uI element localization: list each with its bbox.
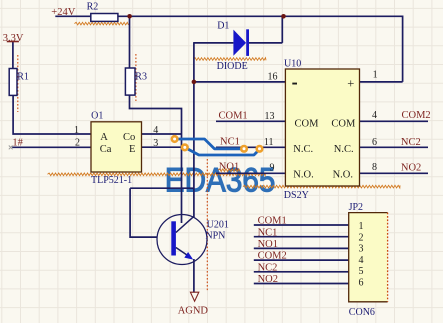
svg-text:NO2: NO2 bbox=[258, 274, 278, 285]
svg-text:4: 4 bbox=[153, 125, 158, 136]
svg-text:NC1: NC1 bbox=[220, 137, 240, 148]
svg-text:16: 16 bbox=[268, 71, 278, 82]
svg-text:TLP521-1: TLP521-1 bbox=[91, 175, 132, 186]
svg-text:O1: O1 bbox=[91, 110, 103, 121]
svg-text:A: A bbox=[100, 132, 108, 143]
svg-text:AGND: AGND bbox=[178, 306, 209, 317]
svg-text:1: 1 bbox=[359, 221, 364, 232]
svg-text:NO1: NO1 bbox=[219, 162, 239, 173]
svg-text:COM: COM bbox=[295, 119, 320, 130]
svg-text:N.C.: N.C. bbox=[293, 144, 313, 155]
svg-text:3: 3 bbox=[153, 138, 158, 149]
svg-text:1: 1 bbox=[373, 70, 378, 81]
svg-text:3: 3 bbox=[359, 244, 364, 255]
svg-text:R2: R2 bbox=[87, 1, 99, 12]
svg-text:4: 4 bbox=[372, 110, 377, 121]
svg-text:6: 6 bbox=[372, 137, 377, 148]
svg-text:R1: R1 bbox=[17, 72, 29, 83]
svg-text:U10: U10 bbox=[284, 58, 301, 69]
svg-text:E: E bbox=[129, 144, 135, 155]
svg-text:+24V: +24V bbox=[51, 7, 75, 18]
svg-text:4: 4 bbox=[359, 255, 364, 266]
svg-text:2: 2 bbox=[359, 232, 364, 243]
svg-text:9: 9 bbox=[270, 162, 275, 173]
svg-text:NO1: NO1 bbox=[258, 239, 278, 250]
svg-text:COM2: COM2 bbox=[402, 110, 431, 121]
svg-text:NPN: NPN bbox=[205, 230, 225, 241]
svg-text:CON6: CON6 bbox=[349, 307, 375, 318]
svg-text:11: 11 bbox=[264, 137, 274, 148]
svg-text:Ca: Ca bbox=[100, 144, 112, 155]
svg-text:8: 8 bbox=[372, 162, 377, 173]
svg-text:NC2: NC2 bbox=[401, 137, 421, 148]
svg-text:NO2: NO2 bbox=[401, 162, 421, 173]
svg-text:COM2: COM2 bbox=[258, 251, 287, 262]
svg-text:DS2Y: DS2Y bbox=[284, 190, 309, 201]
svg-text:U201: U201 bbox=[207, 220, 229, 231]
svg-text:NC1: NC1 bbox=[258, 227, 278, 238]
svg-text:6: 6 bbox=[359, 278, 364, 289]
svg-text:Co: Co bbox=[123, 132, 135, 143]
svg-text:NC2: NC2 bbox=[258, 262, 278, 273]
svg-text:COM1: COM1 bbox=[258, 216, 287, 227]
svg-text:N.O.: N.O. bbox=[293, 170, 313, 181]
svg-text:N.O.: N.O. bbox=[333, 170, 353, 181]
svg-text:3.3V: 3.3V bbox=[3, 33, 24, 44]
svg-text:JP2: JP2 bbox=[349, 202, 363, 213]
svg-text:5: 5 bbox=[359, 266, 364, 277]
svg-text:13: 13 bbox=[265, 111, 275, 122]
svg-text:COM: COM bbox=[331, 119, 356, 130]
svg-text:R3: R3 bbox=[135, 71, 147, 82]
svg-text:DIODE: DIODE bbox=[217, 61, 248, 72]
svg-text:1: 1 bbox=[74, 125, 79, 136]
svg-text:COM1: COM1 bbox=[219, 111, 248, 122]
svg-text:+: + bbox=[347, 77, 354, 91]
svg-text:D1: D1 bbox=[217, 21, 229, 32]
svg-text:2: 2 bbox=[75, 138, 80, 149]
svg-text:1#: 1# bbox=[12, 137, 23, 148]
svg-text:N.C.: N.C. bbox=[334, 144, 354, 155]
